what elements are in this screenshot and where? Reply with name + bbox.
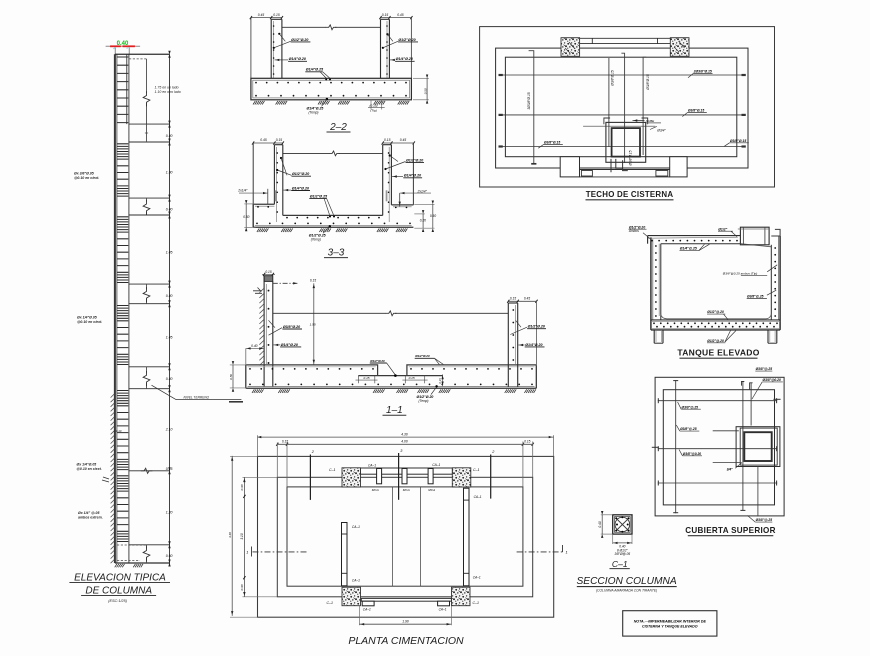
svg-text:CA–1: CA–1: [363, 608, 371, 612]
svg-text:0.40: 0.40: [598, 521, 602, 527]
section 3-3 top connector line with break: [283, 152, 330, 154]
svg-text:0.45: 0.45: [397, 13, 404, 17]
column elevation: segment boundary lines: [129, 123, 170, 125]
svg-text:CA–1: CA–1: [368, 464, 376, 468]
section 1-1 step dim 0.15 right: [404, 376, 406, 384]
section 2-2 top dimension line left (0.45 / 0.15): [251, 17, 282, 19]
tanque hatch curb: [740, 227, 769, 245]
svg-text:Øx 3/8"Ø.05: Øx 3/8"Ø.05: [74, 171, 94, 175]
svg-text:4.00: 4.00: [401, 440, 408, 444]
svg-text:0.15: 0.15: [524, 440, 530, 444]
svg-text:C–1: C–1: [473, 468, 479, 472]
svg-text:Ø1/4"@.25: Ø1/4"@.25: [680, 247, 697, 251]
svg-text:NIVEL TERRENO: NIVEL TERRENO: [184, 396, 210, 400]
column section C-1 left dim 0.40: [601, 514, 613, 516]
svg-text:Ø3/8"@.25: Ø3/8"@.25: [680, 427, 697, 431]
section 3-3 right wall: [382, 145, 384, 216]
svg-text:Ø3/8"@.25: Ø3/8"@.25: [747, 295, 764, 299]
svg-text:Ø1/2": Ø1/2": [718, 227, 727, 231]
stray mark left of section 1-1: [229, 401, 243, 403]
section 1-1 left wall: [263, 276, 265, 387]
svg-text:0.40: 0.40: [251, 344, 258, 348]
svg-text:0.50: 0.50: [243, 215, 249, 219]
section 1-1 dash-dot level line: [273, 282, 298, 284]
column elevation: base hatch clusters: [115, 564, 125, 567]
column elevation: break symbols in gap segments: [146, 198, 148, 201]
svg-text:C–1: C–1: [327, 601, 333, 605]
techo hatch bottom J-hooks: [611, 159, 628, 172]
section 1-1 right extension line: [536, 301, 538, 365]
svg-text:Ø1/4"Ø.20: Ø1/4"Ø.20: [289, 57, 306, 61]
tanque bottom slab: [651, 319, 780, 321]
svg-text:Ø3/8"@0.20: Ø3/8"@0.20: [683, 452, 702, 456]
svg-text:3.40: 3.40: [228, 532, 232, 538]
svg-text:Ø3/8"@.25: Ø3/8"@.25: [756, 367, 773, 371]
tanque right wall with top notch: [770, 245, 772, 320]
svg-text:(COLUMNA AMARRADA CON TIRANTE): (COLUMNA AMARRADA CON TIRANTE): [596, 588, 657, 592]
section 2-2 top connector line with break: [282, 26, 326, 28]
svg-text:Ø1/2"Ø.20: Ø1/2"Ø.20: [370, 359, 385, 363]
svg-text:0.15: 0.15: [273, 13, 280, 17]
svg-text:Ø1/2"Ø.20: Ø1/2"Ø.20: [528, 325, 545, 329]
planta corner column C-1 top-right: [452, 468, 471, 487]
planta bottom dim 1.90: [358, 606, 360, 625]
section 3-3 left wall: [273, 145, 275, 205]
section 2-2 rebar label right upper: [387, 33, 389, 35]
tanque left leg: [653, 330, 655, 343]
cubierta edge ticks: [652, 446, 659, 448]
section 1-1 rebar label wall left: [269, 320, 276, 327]
section 2-2 top dimension line right (0.15 / 0.45): [381, 17, 412, 19]
svg-text:0.15: 0.15: [510, 297, 516, 301]
cubierta rebar horizontal line 3: [658, 482, 777, 484]
svg-text:Ø3/8"Ø.15: Ø3/8"Ø.15: [730, 139, 746, 143]
svg-text:Ø3/8"@.25: Ø3/8"@.25: [682, 405, 699, 409]
section 1-1 rebar label right wall lower: [518, 344, 524, 346]
svg-text:Ø1/4"Ø.20: Ø1/4"Ø.20: [525, 343, 542, 347]
section 1-1 water level mark: [253, 288, 262, 294]
planta wall outer rectangle: [277, 477, 532, 597]
svg-text:1: 1: [246, 550, 248, 554]
cubierta hatch mid square: [740, 428, 777, 465]
section 3-3 footing interior dots: [287, 217, 379, 219]
techo hatched column block left: [561, 38, 580, 57]
section 3-3 bottom rebar label: [329, 225, 331, 227]
section 2-2 soil hatch clusters: [253, 101, 265, 105]
svg-text:Øx 1/4" @.05: Øx 1/4" @.05: [78, 511, 99, 515]
column elevation: top cap line: [115, 53, 170, 55]
svg-text:Ø1/4"Ø.20: Ø1/4"Ø.20: [281, 343, 298, 347]
section 1-1 ground hatch on left wall face: [259, 289, 263, 366]
svg-text:0.15: 0.15: [438, 378, 442, 384]
techo rebar horizontal line 2: [499, 114, 746, 116]
note box rectangle: [623, 611, 717, 636]
techo wall inner rectangle: [505, 57, 736, 157]
planta section cut 2 right: [490, 455, 492, 499]
svg-text:1.45: 1.45: [166, 335, 173, 339]
svg-text:Ø1/4"Ø.20: Ø1/4"Ø.20: [396, 57, 413, 61]
section 2-2 right wall: [380, 19, 382, 78]
svg-text:1.55: 1.55: [310, 323, 316, 327]
column elevation: dimension arrows: [168, 54, 170, 58]
planta left dim 3.40: [231, 456, 233, 616]
svg-text:1.45: 1.45: [166, 251, 173, 255]
planta left wall CA-1 bar: [342, 523, 348, 586]
column elevation: gap lines near ground: [141, 468, 153, 473]
section 3-3 footing outline: [253, 204, 413, 215]
svg-text:Ø3/8"Ø.15: Ø3/8"Ø.15: [544, 141, 560, 145]
section 1-1 top connector line with break: [273, 312, 386, 314]
planta bottom tie beam: [361, 598, 451, 601]
techo vertical rebar left: [529, 51, 534, 164]
svg-text:Ø3/8"Ø.15: Ø3/8"Ø.15: [688, 109, 704, 113]
svg-text:@0.10 en c/ext.: @0.10 en c/ext.: [74, 176, 99, 180]
svg-text:CA–1: CA–1: [439, 608, 447, 612]
svg-text:CA–1: CA–1: [352, 525, 360, 529]
svg-text:Ø3/8"Ø.15: Ø3/8"Ø.15: [646, 74, 650, 91]
svg-text:0.40: 0.40: [166, 134, 173, 138]
techo bottom beam: [580, 169, 670, 171]
planta wall inner rectangle: [287, 487, 523, 586]
svg-text:2Ø3/8"Ø.15: 2Ø3/8"Ø.15: [693, 70, 712, 74]
svg-text:Ø1/2"Ø.25: Ø1/2"Ø.25: [310, 194, 328, 198]
svg-text:TANQUE ELEVADO: TANQUE ELEVADO: [677, 347, 759, 357]
svg-text:0.15: 0.15: [409, 376, 415, 380]
column elevation: stirrup tick marks: [117, 57, 128, 542]
section 1-1 right wall: [507, 303, 509, 387]
svg-text:0.40: 0.40: [166, 377, 173, 381]
planta top tie beam between columns: [361, 468, 453, 474]
techo top beam between blocks: [580, 37, 671, 39]
svg-text:Ø1/4"Ø.25: Ø1/4"Ø.25: [306, 68, 324, 72]
svg-text:Ambos: Ambos: [628, 229, 639, 233]
section 1-1 right wall top dim 0.15/0.45: [508, 300, 536, 302]
planta interior divider lines: [392, 487, 394, 586]
svg-text:DE COLUMNA: DE COLUMNA: [85, 585, 152, 596]
svg-text:Ø3/4": Ø3/4": [656, 128, 666, 132]
planta outer footing rectangle: [258, 456, 554, 617]
svg-text:0.15: 0.15: [310, 279, 316, 283]
svg-text:0.50: 0.50: [430, 214, 436, 218]
svg-text:Ø3/8"Ø.15: Ø3/8"Ø.15: [628, 150, 632, 166]
svg-text:MCA: MCA: [428, 488, 435, 492]
svg-text:1.90: 1.90: [402, 619, 409, 623]
section 1-1 left depth dim 0.50: [230, 364, 247, 366]
column elevation: base line: [115, 562, 170, 564]
svg-text:Ø1/2"Ø.20: Ø1/2"Ø.20: [415, 354, 430, 358]
section 2-2 footing slab: [251, 78, 412, 100]
svg-text:3/8"Ø@.05: 3/8"Ø@.05: [614, 552, 630, 556]
svg-text:C–1: C–1: [473, 601, 479, 605]
svg-text:0.40: 0.40: [166, 294, 173, 298]
section 1-1 rebar label wall left lower: [273, 344, 280, 346]
section 2-2 right extension line / footing edge: [410, 18, 412, 79]
cubierta rebar vertical line left: [675, 380, 677, 513]
svg-text:Ø1/2"Ø.20: Ø1/2"Ø.20: [398, 38, 415, 42]
column elevation: dashed base level line: [117, 544, 147, 546]
svg-text:Ø3/8"Ø.20: Ø3/8"Ø.20: [283, 325, 300, 329]
cubierta rebar horizontal line 1: [658, 400, 777, 402]
svg-text:ambos extrem.: ambos extrem.: [78, 516, 103, 520]
column elevation: base break symbol: [146, 545, 148, 549]
svg-text:CA–1: CA–1: [474, 495, 482, 499]
svg-text:3Ø3/8"Ø.15: 3Ø3/8"Ø.15: [527, 92, 531, 109]
svg-text:Ø1/4"Ø.20: Ø1/4"Ø.20: [292, 186, 309, 190]
column section C-1 diagonal ties: [616, 518, 629, 531]
section 1-1 left wall cap: [264, 276, 273, 282]
tanque left wall: [650, 237, 652, 330]
techo bottom support left: [560, 157, 579, 177]
cubierta outer rectangle: [655, 377, 784, 516]
svg-text:0.15: 0.15: [384, 138, 391, 142]
svg-text:(Temp): (Temp): [309, 110, 319, 114]
tanque right leg: [767, 330, 769, 343]
svg-text:(ESC:1/25): (ESC:1/25): [108, 599, 128, 603]
svg-text:0.15: 0.15: [276, 138, 283, 142]
column elevation: extension lines below red dim: [114, 48, 116, 55]
section 3-3 top dimension left (0.45/0.15): [253, 142, 283, 144]
section 3-3 left depth dim 0.50: [244, 203, 255, 205]
svg-text:CISTERNA Y TANQUE ELEVADO: CISTERNA Y TANQUE ELEVADO: [642, 625, 698, 629]
planta top beam stirrup ties: [377, 469, 382, 484]
svg-text:C–1: C–1: [329, 468, 335, 472]
svg-text:Ø1/2"@.20: Ø1/2"@.20: [707, 310, 724, 314]
section 2-2 footing bottom rebar dots: [256, 95, 406, 97]
svg-text:Ø3/8"@0.20: Ø3/8"@0.20: [763, 378, 782, 382]
section 3-3 rebar label right lower: [392, 176, 403, 178]
svg-text:Øx 1/4"Ø.05: Øx 1/4"Ø.05: [77, 315, 97, 319]
svg-text:0.15: 0.15: [265, 270, 271, 274]
techo hatch corner hooks: [604, 118, 648, 124]
section 1-1 footing outline: [246, 365, 537, 376]
section 2-2 left extension line / footing edge: [250, 18, 252, 79]
svg-text:Ø1/2"@.20: Ø1/2"@.20: [707, 339, 724, 343]
svg-text:SECCION COLUMNA: SECCION COLUMNA: [576, 576, 676, 587]
svg-text:2–2: 2–2: [329, 122, 347, 133]
svg-text:PLANTA CIMENTACION: PLANTA CIMENTACION: [348, 635, 464, 647]
techo bottom support right: [670, 157, 687, 177]
column section C-1 rebar dots: [615, 517, 617, 519]
column elevation: red dimension line with cyan ticks: [106, 45, 141, 47]
svg-text:Ø3/8"@0.25 ambos (Típ): Ø3/8"@0.25 ambos (Típ): [722, 271, 758, 275]
cubierta hatch-to-label vertical leader: [757, 467, 759, 517]
svg-text:1.10 en otro lado: 1.10 en otro lado: [155, 90, 181, 94]
section 3-3 right dims 0.20 and 0.50: [414, 213, 425, 215]
svg-text:C–1: C–1: [612, 559, 628, 569]
section 2-2 footing top rebar dots: [256, 82, 406, 84]
section 2-2 rebar label right lower: [390, 59, 395, 61]
svg-text:0.45: 0.45: [260, 138, 267, 142]
column elevation: column left edge double line: [114, 54, 116, 563]
svg-text:@0.10 en c/ext.: @0.10 en c/ext.: [77, 467, 102, 471]
svg-text:⊢0.40: ⊢0.40: [114, 429, 122, 433]
techo rebar horizontal line 3: [499, 146, 746, 148]
planta corner column C-1 bottom-left: [342, 587, 361, 606]
column section C-1 outer square: [613, 515, 632, 534]
svg-text:CA–1: CA–1: [432, 463, 440, 467]
cubierta hatch leader lines: [713, 430, 739, 432]
planta band extension lines to left dims: [243, 476, 278, 478]
section 1-1 rebar label right wall: [516, 321, 521, 328]
techo rebar horizontal line 1: [499, 74, 746, 76]
cubierta hatch outer square: [736, 427, 780, 467]
planta top dim 0.15/4.00/0.15: [277, 443, 532, 445]
section 3-3 rebar label right upper: [389, 154, 391, 156]
cubierta rebar vertical line right long: [742, 382, 744, 511]
svg-text:1.20: 1.20: [166, 511, 173, 515]
section 2-2 left wall: [270, 19, 272, 78]
section 1-1 footing rebar dots: [250, 368, 373, 370]
tanque top slab: [648, 235, 741, 237]
svg-text:0.50: 0.50: [423, 88, 427, 94]
svg-text:0.60: 0.60: [166, 554, 173, 558]
svg-text:2.10: 2.10: [165, 428, 173, 432]
techo hatched column block right: [670, 38, 689, 57]
section 3-3 soil hatch clusters: [257, 228, 269, 232]
column elevation: dimension line: [169, 54, 171, 564]
svg-text:3.10: 3.10: [240, 533, 244, 539]
planta right wall CA-1 bar: [464, 488, 470, 586]
section 3-3 right extension to footing edge: [412, 143, 414, 205]
column section C-1 inner square: [615, 517, 631, 533]
planta top dim 4.30: [258, 436, 554, 438]
svg-text:@0.10 en c/ext.: @0.10 en c/ext.: [77, 320, 102, 324]
section 3-3 top dimension right (0.15/0.45): [383, 142, 414, 144]
svg-text:NOTA.—IMPERMEABILIZAR INTERIOR: NOTA.—IMPERMEABILIZAR INTERIOR DE: [634, 620, 707, 624]
section 2-2 footing depth dimension 0.50: [413, 77, 429, 79]
section 2-2 bottom rebar label: [326, 98, 328, 100]
section 1-1 step depth dim 0.15 vertical: [442, 374, 444, 386]
svg-text:0.40: 0.40: [166, 207, 173, 211]
svg-text:0.50: 0.50: [229, 374, 233, 380]
svg-text:MCA: MCA: [372, 488, 379, 492]
svg-text:Øx 1/4"Ø.05: Øx 1/4"Ø.05: [77, 462, 97, 466]
column elevation: nivel terreno leader: [152, 385, 177, 399]
techo center vertical rebars: [608, 58, 610, 147]
tanque floor curve: [661, 315, 772, 319]
svg-text:Ø1/2"Ø.20: Ø1/2"Ø.20: [292, 172, 309, 176]
svg-text:0.15: 0.15: [166, 467, 173, 471]
svg-text:ELEVACION TIPICA: ELEVACION TIPICA: [74, 573, 166, 584]
svg-text:Ø3/8"Ø.15: Ø3/8"Ø.15: [611, 70, 615, 87]
section 1-1 bottom rebar label: [435, 385, 437, 387]
section 1-1 step dim 0.15 left: [357, 376, 359, 384]
column elevation: dashed roof level line: [129, 58, 147, 60]
techo outer border rectangle: [480, 27, 775, 187]
svg-text:4.30: 4.30: [401, 432, 408, 436]
section 3-3 left extension to footing edge: [252, 143, 254, 204]
svg-text:Ø1/2"Ø.20: Ø1/2"Ø.20: [406, 159, 423, 163]
svg-text:1–1: 1–1: [386, 405, 403, 416]
svg-text:(Típ): (Típ): [370, 109, 377, 113]
svg-text:0.30: 0.30: [240, 584, 244, 590]
column elevation: far side height line with break: [146, 59, 148, 93]
planta wall extension lines above: [276, 443, 278, 478]
svg-text:2x1/4": 2x1/4": [237, 188, 248, 192]
cubierta inner rectangle: [663, 390, 774, 505]
svg-text:0.20: 0.20: [420, 219, 426, 223]
svg-text:1: 1: [566, 550, 568, 554]
section 1-1 height dim 1.55: [313, 283, 315, 364]
svg-text:(Temp): (Temp): [311, 237, 321, 241]
column elevation: inner face line top segment: [126, 54, 128, 124]
svg-text:0.15: 0.15: [382, 13, 389, 17]
svg-text:TECHO DE CISTERNA: TECHO DE CISTERNA: [586, 190, 674, 199]
column elevation: ground hatch along buried shaft: [111, 394, 115, 563]
column section C-1 bottom dim 0.40: [612, 534, 614, 544]
svg-text:(0.15): (0.15): [369, 103, 377, 107]
techo access hatch outer square: [606, 122, 646, 162]
planta section cut 1 right: [517, 551, 563, 553]
planta corner column C-1 top-left: [342, 468, 361, 487]
techo SUBE label with arrow: [633, 120, 645, 122]
column elevation: column right edge line: [128, 54, 130, 563]
svg-text:CA–1: CA–1: [352, 578, 360, 582]
techo riser pipe leader 3/4: [583, 125, 655, 127]
planta section cut 2 left: [309, 455, 311, 500]
section 1-1 soil hatch clusters: [252, 389, 264, 393]
svg-text:SUBE: SUBE: [646, 119, 655, 123]
svg-text:3–3: 3–3: [328, 248, 345, 259]
svg-text:Ø1/2"Ø.20: Ø1/2"Ø.20: [291, 38, 308, 42]
section 2-2 rebar label left lower: [275, 59, 289, 61]
planta left dim 0.30/3.10/0.30: [243, 477, 245, 597]
cubierta rebar horizontal line 2: [658, 448, 777, 450]
svg-text:CA–1: CA–1: [473, 576, 481, 580]
svg-text:0.15: 0.15: [363, 376, 369, 380]
planta corner column C-1 bottom-right: [452, 587, 471, 606]
cubierta hatch inner square thick: [744, 432, 771, 461]
svg-text:Ø3/8"@.25: Ø3/8"@.25: [756, 518, 773, 522]
techo tank outer rectangle: [496, 48, 748, 168]
svg-text:0.30: 0.30: [240, 484, 244, 490]
section 3-3 rebar label left lower: [283, 189, 291, 191]
section 2-2 wall thickness dim (0.15 Tip): [370, 100, 372, 110]
svg-text:0.45: 0.45: [524, 297, 530, 301]
cubierta rebar vertical line right short: [750, 383, 752, 426]
svg-text:1.75 en un lado: 1.75 en un lado: [155, 86, 179, 90]
section 3-3 rebar label left: [280, 157, 282, 159]
svg-text:CUBIERTA SUPERIOR: CUBIERTA SUPERIOR: [685, 526, 776, 535]
svg-text:1.30: 1.30: [166, 170, 173, 174]
svg-text:0.45: 0.45: [258, 13, 265, 17]
planta section cut 3: [398, 453, 400, 500]
section 2-2 rebar label left upper: [278, 33, 280, 35]
svg-text:(Temp): (Temp): [419, 399, 429, 403]
techo access hatch inner square: [612, 128, 640, 157]
svg-text:0.45: 0.45: [400, 138, 407, 142]
svg-text:MCA: MCA: [403, 488, 410, 492]
svg-text:3/4": 3/4": [727, 467, 734, 471]
svg-text:Ø1/4"Ø.20: Ø1/4"Ø.20: [404, 174, 421, 178]
column section C-1 spiral circle: [615, 517, 630, 532]
